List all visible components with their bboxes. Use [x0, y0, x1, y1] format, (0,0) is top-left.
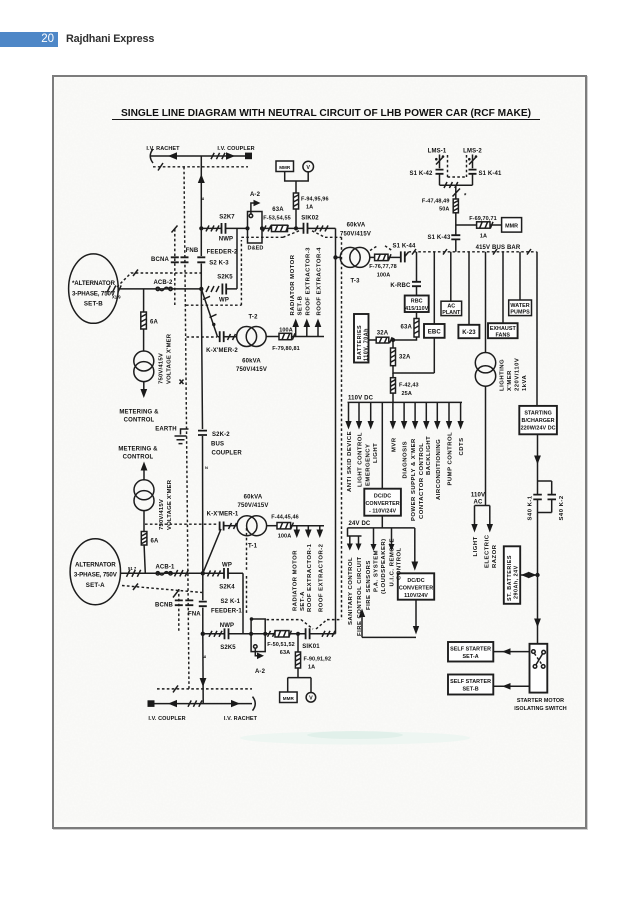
svg-text:BACKLIGHT: BACKLIGHT: [426, 436, 432, 475]
arrow roof extractor-2: [319, 526, 321, 531]
svg-text:MMR: MMR: [505, 223, 518, 229]
wire into T-2: [224, 336, 237, 338]
svg-text:K-X'MER-2: K-X'MER-2: [206, 348, 238, 354]
svg-text:1A: 1A: [308, 665, 315, 671]
svg-text:SET-B: SET-B: [84, 301, 103, 308]
svg-text:ELECTRIC: ELECTRIC: [485, 534, 491, 568]
svg-text:WP: WP: [219, 298, 229, 304]
dashed bypass over T-3 fuse: [370, 246, 392, 251]
svg-text:N: N: [205, 465, 208, 470]
svg-text:32A: 32A: [399, 355, 411, 361]
dashed vertical right of WP: [246, 528, 248, 614]
svg-text:ALTERNATOR: ALTERNATOR: [75, 561, 116, 568]
node dots on bottom relay box: [249, 632, 253, 636]
meter MMR box (bottom): [280, 692, 298, 703]
svg-text:SANITARY CONTROL: SANITARY CONTROL: [348, 557, 354, 625]
svg-text:110V: 110V: [471, 493, 485, 499]
svg-text:ST. BATTERIES: ST. BATTERIES: [507, 555, 513, 601]
wire DC/DC-1 to 24V bus: [381, 516, 383, 528]
svg-text:220W/24V DC: 220W/24V DC: [521, 426, 556, 432]
capacitor S2 K-3: [197, 257, 205, 262]
wire D&ED to fuse: [262, 227, 272, 229]
wire LMS-2 stem lower: [472, 174, 474, 185]
wire bus drop to lighting x'mer: [485, 252, 487, 353]
capacitor S1 K-44: [401, 251, 405, 262]
wire bus drop to AC PLANT: [450, 252, 452, 301]
svg-text:S2K5: S2K5: [220, 645, 236, 651]
capacitor S40 K-1: [533, 495, 542, 500]
svg-text:P.A. SYSTEM: P.A. SYSTEM: [374, 550, 380, 592]
svg-text:60kVA: 60kVA: [244, 494, 263, 500]
svg-text:POWER SUPPLY & X'MER: POWER SUPPLY & X'MER: [411, 438, 417, 521]
wire fuse to battery row: [393, 337, 417, 340]
alternator SET-B: [69, 254, 119, 323]
svg-text:RBC: RBC: [411, 299, 423, 305]
wire bus drop to exhaust fans: [502, 252, 504, 323]
svg-text:750V/415V: 750V/415V: [236, 367, 267, 373]
svg-text:A-2: A-2: [255, 669, 266, 675]
svg-text:K-X'MER-1: K-X'MER-1: [207, 512, 239, 518]
svg-text:METERING &: METERING &: [118, 446, 158, 452]
svg-text:RADIATOR MOTOR: RADIATOR MOTOR: [293, 550, 299, 611]
svg-text:SIK01: SIK01: [302, 644, 320, 650]
wire 24V DC bus: [348, 527, 415, 529]
svg-text:SELF STARTER: SELF STARTER: [450, 647, 491, 653]
svg-text:F-44,45,46: F-44,45,46: [271, 514, 299, 520]
svg-text:I.V. COUPLER: I.V. COUPLER: [148, 716, 185, 722]
wire NWP row: [203, 633, 275, 635]
svg-text:S1 K-43: S1 K-43: [427, 235, 451, 241]
svg-text:ROOF EXTRACTOR-2: ROOF EXTRACTOR-2: [318, 543, 324, 612]
svg-text:PLANT: PLANT: [442, 310, 461, 316]
svg-text:STARTING: STARTING: [524, 410, 552, 416]
hatch at alternator B output: [107, 285, 121, 292]
svg-text:SET-A: SET-A: [463, 654, 479, 660]
svg-text:1A: 1A: [480, 233, 487, 239]
wire 6A fuse to main line A: [144, 545, 145, 573]
capacitor K-RBC: [412, 282, 421, 286]
wire into T-1: [224, 525, 237, 527]
fuse F-44,45,46 100A: [277, 523, 291, 529]
wire 110V AC crossbar: [475, 505, 490, 507]
svg-text:*ALTERNATOR: *ALTERNATOR: [72, 280, 116, 287]
wire T-1 to fuse: [267, 525, 277, 527]
arrow roof extractor-3: [306, 326, 308, 337]
arrow airconditioning: [436, 402, 438, 422]
svg-text:MMR: MMR: [283, 696, 295, 701]
svg-text:1A: 1A: [306, 204, 313, 210]
svg-text:K-RBC: K-RBC: [390, 283, 411, 289]
arrow LIGHT branch: [474, 506, 476, 526]
arrowhead into DC/DC-2: [411, 562, 418, 571]
contact circle in D&ED box: [249, 214, 253, 218]
arrowhead right on top rail: [226, 152, 235, 159]
breaker ACB-1: [156, 572, 159, 575]
svg-text:I.V. COUPLER: I.V. COUPLER: [217, 146, 254, 152]
node junction above F-90 fuse: [296, 632, 300, 636]
fuse F-94,95,96 1A: [293, 193, 298, 209]
meter MMR box (top): [276, 161, 294, 172]
arrow radiator motor SET-A: [296, 526, 298, 531]
starter SELF STARTER SET-B box: [448, 675, 493, 695]
wire bottom feeder drop: [202, 634, 204, 704]
arrow sanitary control: [349, 536, 351, 544]
svg-text:25A: 25A: [402, 391, 412, 397]
converter RBC 415/110V box: [405, 296, 429, 313]
svg-text:S40 K-2: S40 K-2: [559, 495, 565, 520]
wire DC/DC-2 return loop: [415, 600, 417, 627]
wire feeder-1 vertical (S2 K-1): [202, 573, 204, 634]
dashed bypass rail around SIK01: [267, 620, 342, 629]
pumps WATER PUMPS box: [509, 300, 532, 316]
wire fuse to 110V DC bus: [392, 393, 394, 402]
node junction below F-94 fuse: [294, 226, 298, 230]
svg-text:ANTI SKID DEVICE: ANTI SKID DEVICE: [347, 431, 353, 492]
svg-text:750V/415V: 750V/415V: [237, 503, 268, 509]
svg-text:FNB: FNB: [186, 248, 199, 254]
wire switch to SET-A with arrow: [493, 651, 529, 653]
arrow emergency light: [370, 402, 372, 422]
arrowhead right on bottom rail: [231, 700, 240, 707]
svg-text:F-53,54,55: F-53,54,55: [263, 216, 291, 222]
arrow CDTS: [460, 402, 462, 422]
tick slashes on bus bar: [412, 249, 531, 255]
wire long vertical solid (feeder tie): [335, 228, 337, 633]
node main junction SET-B: [199, 287, 203, 291]
node battery junction: [391, 338, 395, 342]
svg-text:DC/DC: DC/DC: [407, 578, 424, 584]
svg-text:EBC: EBC: [428, 330, 442, 336]
svg-text:BCNB: BCNB: [155, 603, 173, 609]
svg-text:CONVERTER: CONVERTER: [365, 501, 399, 507]
wire down to isolating switch: [537, 575, 539, 644]
wire vertical E-line from top rail: [200, 156, 202, 228]
arrow up to metering (SET-A): [141, 462, 148, 471]
svg-text:FEEDER-1: FEEDER-1: [211, 608, 242, 614]
wire T-2 to fuse: [266, 336, 279, 338]
voltmeter V (top): [303, 161, 314, 172]
svg-text:CONTROL: CONTROL: [397, 547, 403, 580]
svg-text:WATER: WATER: [510, 303, 529, 309]
ground earth symbol: [175, 429, 189, 444]
hook slash at top of BCNA dashed: [172, 226, 178, 233]
svg-text:SET-A: SET-A: [300, 591, 306, 611]
svg-text:U.I.C. REMOTE: U.I.C. REMOTE: [389, 538, 395, 586]
svg-text:SET-A: SET-A: [86, 582, 105, 589]
node main junction SET-A: [201, 571, 205, 575]
relay box (bottom): [251, 619, 265, 652]
svg-text:100A: 100A: [377, 272, 391, 278]
fuse F-47,48,49 50A: [453, 199, 458, 213]
wire long vertical dashed (tie): [341, 237, 343, 619]
dashed link between LMS stems: [448, 155, 467, 177]
wire 110V DC bus: [348, 401, 463, 403]
wire S2K5 to corner up: [226, 228, 237, 289]
hatch right of junction B: [206, 286, 219, 292]
capacitor SIK02: [304, 223, 308, 234]
transformer T-2: [237, 327, 257, 347]
contact circle in bottom relay box: [254, 645, 258, 649]
breaker ACB-2: [156, 287, 159, 290]
converter DC/DC 110V/24V box (upper): [364, 489, 401, 516]
wire bus drop to water pumps: [519, 252, 521, 300]
arrow roof extractor-4: [317, 326, 319, 337]
dashed line under T-1: [145, 523, 218, 525]
wire corner down to NWP row: [242, 573, 244, 634]
hatch on LMS join: [444, 182, 458, 188]
wire fuse to radiator arrows (SET-B): [292, 336, 324, 338]
arrow pump control: [448, 402, 450, 422]
svg-text:X1 9: X1 9: [112, 295, 121, 300]
svg-text:F-76,77,78: F-76,77,78: [369, 264, 397, 270]
arrow power supply control: [414, 402, 416, 422]
capacitor FNB (on dashed vertical): [181, 257, 189, 262]
wire join bar to fuse: [455, 185, 457, 199]
hatch before T-2: [228, 334, 236, 340]
svg-text:24V DC: 24V DC: [349, 521, 371, 527]
svg-text:1kVA: 1kVA: [522, 374, 528, 391]
arrowhead into switch: [534, 619, 541, 628]
wire dashed vertical left (BCNA/FNB/EARTH feeder): [184, 167, 189, 689]
svg-text:X'MER: X'MER: [507, 370, 513, 391]
svg-text:NWP: NWP: [219, 237, 233, 243]
transformer T-3: [340, 247, 360, 267]
svg-text:VOLTAGE X'MER: VOLTAGE X'MER: [167, 479, 173, 530]
arrow backlight: [425, 402, 427, 422]
wire bottom dashed rail: [157, 688, 252, 690]
dashed box bottom (feeder-2 zone): [186, 240, 241, 305]
fuse F-79,80,81 100A: [279, 333, 292, 339]
svg-text:750V/415V: 750V/415V: [340, 231, 371, 237]
svg-text:CONVERTER: CONVERTER: [399, 586, 433, 592]
capacitor S2K-2 bus coupler: [198, 431, 207, 435]
hatch before T-1: [229, 523, 237, 529]
capacitor SIK01: [306, 628, 310, 639]
wire alternator B main line: [118, 288, 201, 290]
svg-text:CONTROL: CONTROL: [124, 418, 155, 424]
arrowhead up on E-line: [198, 174, 205, 183]
svg-text:LMS-2: LMS-2: [463, 148, 482, 154]
transformer voltage x'mer SET-B: [134, 351, 154, 371]
wire top solid rail: [151, 155, 246, 157]
fuse 63A (RBC drop): [416, 312, 418, 319]
arrow P.A. system: [373, 528, 375, 545]
svg-text:3-PHASE, 750V: 3-PHASE, 750V: [74, 572, 118, 579]
svg-text:EXHAUST: EXHAUST: [490, 326, 517, 332]
svg-text:32A: 32A: [377, 331, 389, 337]
svg-text:415V BUS BAR: 415V BUS BAR: [476, 245, 521, 251]
title: [112, 108, 540, 120]
svg-text:110V DC: 110V DC: [348, 396, 374, 402]
arrowhead left on bottom rail: [168, 700, 177, 707]
wire T-3 to fuse: [370, 256, 375, 258]
hatch on NWP row: [209, 631, 222, 637]
hatch after D&ED: [263, 225, 271, 231]
wire 24V sub-bracket: [348, 528, 362, 536]
svg-text:F-69,70,71: F-69,70,71: [469, 216, 497, 222]
slide header bar: [0, 32, 58, 47]
svg-text:MVR: MVR: [391, 437, 397, 452]
connector arc left end of top rail: [150, 149, 153, 163]
wire cap to bus: [405, 252, 409, 257]
relay D&ED box (top): [248, 212, 263, 244]
wire SET-B metering branch vertical: [143, 289, 145, 312]
svg-text:FNA: FNA: [188, 611, 201, 617]
node T-3 tap junction: [333, 255, 337, 259]
voltmeter V (bottom): [306, 693, 316, 703]
svg-text:F-90,91,92: F-90,91,92: [304, 656, 332, 662]
svg-text:FANS: FANS: [496, 333, 511, 339]
svg-text:50A: 50A: [439, 207, 449, 213]
svg-text:VOLTAGE X'MER: VOLTAGE X'MER: [167, 333, 173, 384]
capacitor BCNB right (on dashed vertical): [185, 600, 193, 605]
svg-text:FIRE CONTROL CIRCUIT: FIRE CONTROL CIRCUIT: [357, 556, 363, 636]
contactor K-23 box: [458, 325, 479, 338]
wire xmer B down with arrow: [143, 382, 145, 390]
svg-text:SET-B: SET-B: [463, 687, 479, 693]
svg-text:RADIATOR MOTOR: RADIATOR MOTOR: [290, 254, 296, 315]
battery ST. BATTERIES box: [504, 546, 520, 604]
svg-text:- 110V/24V: - 110V/24V: [369, 509, 397, 515]
svg-text:E: E: [200, 197, 205, 200]
svg-text:100A: 100A: [278, 534, 292, 540]
wire fuse to EBC corner: [393, 338, 434, 373]
switch contacts: [532, 650, 536, 654]
wire ST batteries link with double arrows: [520, 574, 537, 576]
wire xmer A to fuse: [143, 511, 145, 532]
arrow MVR: [392, 402, 394, 422]
svg-text:AC: AC: [474, 500, 483, 506]
wire dashed vertical second (BCNA left cap): [174, 229, 176, 305]
fuse F-50,51,52 63A: [275, 631, 289, 637]
wire fuse down to bus: [455, 213, 457, 252]
svg-text:S2K5: S2K5: [217, 275, 233, 281]
hatch at alternator A output: [127, 570, 141, 577]
svg-text:STARTER MOTOR: STARTER MOTOR: [517, 698, 564, 704]
plant AC PLANT box: [441, 301, 462, 315]
capacitor K-X'MER-2: [220, 331, 224, 342]
fuse F-42,43 25A: [392, 373, 394, 378]
scan noise overlay: [55, 78, 583, 823]
svg-text:NWP: NWP: [220, 623, 234, 629]
capacitor WP/S2K4 on main line A: [203, 572, 243, 574]
svg-text:CDTS: CDTS: [459, 437, 465, 455]
fuse F-69,70,71 1A: [477, 222, 490, 228]
svg-text:S2K7: S2K7: [219, 214, 235, 220]
svg-text:T-3: T-3: [350, 278, 360, 284]
svg-text:F-50,51,52: F-50,51,52: [267, 642, 295, 648]
svg-text:DC/DC: DC/DC: [374, 493, 391, 499]
wire bus drop to starting charger: [536, 252, 538, 406]
wire tie to T-3: [336, 256, 341, 258]
svg-text:F-42,43: F-42,43: [399, 383, 419, 389]
wire bottom solid rail: [155, 703, 253, 705]
node dots on D&ED box: [245, 226, 249, 230]
capacitor S1 K-43: [451, 235, 460, 239]
wire feeder-2 vertical (S2 K-3): [200, 228, 202, 289]
wire top dashed rail: [153, 166, 248, 168]
svg-text:EMERGENCY: EMERGENCY: [366, 444, 372, 486]
svg-text:I.V. RACHET: I.V. RACHET: [224, 716, 258, 722]
starter SELF STARTER SET-A box: [448, 642, 493, 662]
svg-text:V: V: [306, 165, 310, 171]
switch slash on lighting feeder: [453, 189, 461, 197]
svg-text:ROOF EXTRACTOR-4: ROOF EXTRACTOR-4: [317, 247, 323, 316]
tick slash on excitation B: [133, 270, 138, 277]
svg-text:METERING &: METERING &: [119, 409, 159, 415]
arrowhead left on top rail: [168, 152, 177, 159]
capacitor S1 K-41: [469, 170, 477, 174]
dashed excitation line from alternator A: [122, 586, 202, 593]
svg-text:ISOLATING SWITCH: ISOLATING SWITCH: [514, 706, 567, 712]
node junction NWP row: [201, 632, 205, 636]
svg-text:CONTROL: CONTROL: [123, 455, 154, 461]
svg-text:ACB-2: ACB-2: [153, 280, 173, 286]
fuse F-53,54,55 63A: [272, 225, 288, 231]
svg-text:BUS: BUS: [211, 442, 224, 448]
svg-text:FIRE SENSORS: FIRE SENSORS: [366, 560, 372, 610]
wire F-94 fuse down to row: [295, 209, 297, 228]
svg-text:S1 K-41: S1 K-41: [478, 171, 502, 177]
wire lighting x'mer down to 110V AC: [485, 386, 487, 505]
svg-text:51 7: 51 7: [128, 566, 137, 571]
wire fuse to radiator arrows (SET-A): [291, 525, 324, 527]
wire alternator A main line: [120, 572, 202, 574]
fuse 32A (vertical): [391, 348, 396, 366]
switch stem LMS-2: [472, 155, 474, 169]
breaker EBC box: [424, 324, 445, 338]
svg-text:6A: 6A: [150, 319, 158, 325]
arrowhead down after charger: [534, 456, 541, 465]
svg-text:F-47,48,49: F-47,48,49: [422, 198, 450, 204]
alternator SET-A: [70, 539, 120, 605]
svg-text:B/CHARGER: B/CHARGER: [522, 418, 555, 424]
svg-text:FEEDER-2: FEEDER-2: [207, 250, 238, 256]
hatch on S2K7 row: [206, 225, 219, 231]
arrow anti skid device: [348, 402, 350, 422]
svg-text:S2 K-3: S2 K-3: [209, 261, 229, 267]
svg-text:PUMP CONTROL: PUMP CONTROL: [448, 432, 454, 486]
tick slash on dashed rail: [158, 163, 163, 171]
hatch marks on top rail: [211, 153, 225, 159]
svg-text:V: V: [309, 696, 313, 702]
svg-text:110V/24V: 110V/24V: [404, 593, 428, 599]
capacitor S2K7: [222, 223, 226, 234]
svg-text:PUMPS: PUMPS: [510, 310, 530, 316]
hatch after SIK01: [322, 631, 335, 637]
svg-text:T-2: T-2: [248, 315, 258, 321]
wire S40 bypass loop: [538, 481, 552, 513]
hatch on diagonal (K-X'MER-2): [203, 296, 217, 317]
fans EXHAUST FANS box: [488, 323, 518, 338]
wire dashed vertical at BCNB (short): [178, 589, 180, 633]
svg-text:LMS-1: LMS-1: [428, 148, 447, 154]
svg-text:S1 K-44: S1 K-44: [392, 243, 416, 249]
node dot on diagonal: [212, 323, 215, 326]
svg-text:K-23: K-23: [462, 330, 476, 336]
arrow diagnosis: [403, 402, 405, 422]
wire S2K7 row: [201, 227, 248, 229]
capacitor FNA / S2 K-1: [199, 602, 207, 607]
fuse 6A (SET-A): [141, 532, 147, 546]
svg-text:AC: AC: [447, 304, 455, 310]
wire bus coupler vertical: [201, 289, 203, 573]
svg-text:EARTH: EARTH: [155, 427, 176, 433]
wire branch to MMR right: [456, 224, 477, 226]
svg-text:415/110V: 415/110V: [405, 306, 429, 312]
capacitor K-X'MER-1: [220, 522, 224, 531]
arrow light control: [358, 402, 360, 422]
